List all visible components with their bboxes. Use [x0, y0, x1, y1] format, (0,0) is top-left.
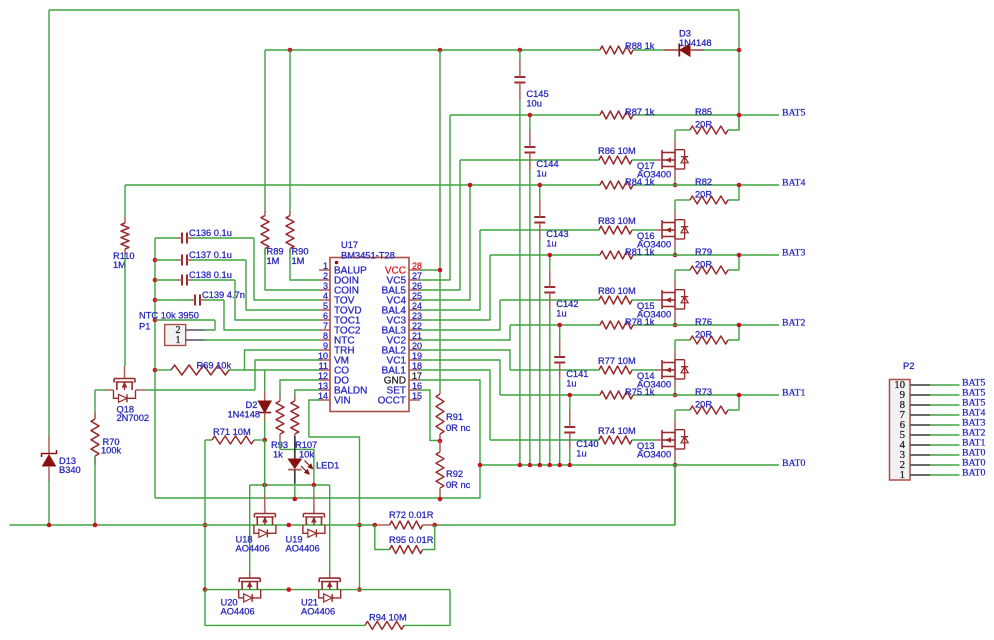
svg-text:20R: 20R	[695, 400, 712, 410]
svg-text:AO4406: AO4406	[236, 544, 270, 554]
svg-text:0R nc: 0R nc	[446, 480, 471, 490]
transistor Q15 AO3400	[655, 280, 688, 319]
junction at 675,395	[673, 393, 678, 398]
wire Q18 source to R70	[94, 390, 96, 419]
svg-text:13: 13	[318, 381, 328, 391]
svg-text:2N7002: 2N7002	[117, 413, 150, 423]
junction at 440,50	[438, 48, 443, 53]
resistor R91 0R nc	[436, 391, 471, 442]
wire riser VCC pin28	[420, 269, 440, 271]
junction at 559.7,465	[557, 463, 562, 468]
svg-text:28: 28	[412, 261, 422, 271]
resistor R87 1k	[600, 107, 655, 119]
wire y485 tie bar	[250, 484, 330, 486]
svg-text:R92: R92	[446, 469, 463, 479]
resistor R79 20R	[690, 247, 728, 274]
wire pin9 TRH staircase	[245, 350, 320, 370]
wire gate row Q13	[490, 439, 599, 441]
resistor R71 10M	[205, 427, 265, 444]
junction at 374.8,525	[373, 523, 378, 528]
svg-text:5: 5	[323, 301, 328, 311]
junction at 675,255	[673, 253, 678, 258]
P2 pin 3	[900, 448, 986, 461]
svg-text:C145: C145	[526, 89, 548, 99]
wire riser SET pin16	[420, 390, 440, 441]
svg-text:R81 1k: R81 1k	[625, 247, 655, 257]
junction at 205,589.6	[203, 587, 208, 592]
svg-text:11: 11	[319, 361, 328, 371]
wire R71 left column to rails	[204, 440, 206, 590]
svg-text:20: 20	[412, 341, 422, 351]
wire R94 loop	[205, 590, 365, 626]
wire U21 column	[329, 485, 331, 571]
svg-text:R77 10M: R77 10M	[598, 356, 636, 366]
junction at 675,465	[673, 463, 678, 468]
svg-text:R73: R73	[695, 387, 712, 397]
wire source to next rail Q14	[674, 389, 676, 395]
svg-text:20R: 20R	[695, 330, 712, 340]
svg-text:4: 4	[323, 291, 328, 301]
capacitor C141 1u	[554, 340, 588, 389]
svg-text:1u: 1u	[536, 169, 546, 179]
capacitor C137 0.1u	[178, 250, 232, 266]
svg-text:R69 10k: R69 10k	[197, 361, 232, 371]
svg-text:BAT2: BAT2	[782, 318, 806, 329]
svg-text:21: 21	[412, 331, 422, 341]
resistor R75 1k	[600, 387, 655, 399]
capacitor C142 1u	[544, 270, 578, 319]
wire R93 column to U19	[313, 485, 315, 494]
svg-text:C142: C142	[556, 299, 578, 309]
svg-text:25: 25	[412, 291, 422, 301]
svg-text:OCCT: OCCT	[378, 396, 406, 407]
svg-text:10u: 10u	[526, 99, 542, 109]
wire BAT3 rail	[490, 254, 600, 256]
svg-text:C143: C143	[546, 229, 568, 239]
pin 21 VC2	[387, 331, 422, 347]
wire drain link Q13	[674, 410, 676, 420]
pin 17 GND	[384, 371, 422, 387]
svg-text:AO4406: AO4406	[301, 607, 335, 617]
wire 20R branch BAT5	[675, 129, 690, 131]
wire drain link Q15	[674, 270, 676, 280]
pin 18 BAL1	[382, 361, 422, 377]
P2 pin 8	[900, 398, 986, 411]
svg-text:1M: 1M	[292, 256, 305, 266]
junction at 290,50	[288, 48, 293, 53]
junction at 155,300	[153, 298, 158, 303]
svg-text:12: 12	[318, 371, 328, 381]
pin 27 VC5	[387, 271, 422, 287]
svg-text:R79: R79	[695, 247, 712, 257]
resistor R72 0.01R	[375, 510, 435, 529]
junction at 288.8,525	[287, 523, 292, 528]
wire BAT4 rail	[125, 184, 600, 186]
svg-text:R83 10M: R83 10M	[598, 216, 636, 226]
resistor R78 1k	[600, 317, 655, 329]
pin 25 VC4	[387, 291, 422, 307]
pin 11 CO	[319, 361, 350, 377]
wire drain link Q16	[674, 200, 676, 210]
svg-text:14: 14	[318, 391, 328, 401]
svg-text:R88 1k: R88 1k	[625, 41, 655, 51]
junction at 294.8,499	[293, 497, 298, 502]
pin 9 TRH	[319, 341, 355, 357]
junction at 264.7,485	[262, 483, 267, 488]
wire riser VC3 pin23	[420, 255, 490, 320]
junction at 739,395	[737, 393, 742, 398]
svg-text:1: 1	[900, 469, 905, 481]
svg-text:17: 17	[412, 371, 422, 381]
wire pin12 DO to R93	[280, 380, 319, 395]
svg-text:19: 19	[412, 351, 422, 361]
pin 15 OCCT	[378, 391, 422, 407]
resistor R86 10M	[598, 146, 636, 164]
resistor R85 20R	[690, 107, 728, 134]
wire pin13 BALDN to R107	[295, 390, 319, 395]
svg-text:R91: R91	[446, 412, 463, 422]
svg-text:P2: P2	[903, 361, 914, 371]
pin 1 BALUP	[319, 261, 367, 277]
svg-text:C141: C141	[566, 369, 588, 379]
P2 pin 5	[900, 428, 986, 441]
junction at 569.8,395	[568, 393, 573, 398]
svg-text:D2: D2	[246, 400, 258, 410]
svg-text:R87 1k: R87 1k	[625, 107, 655, 117]
wire source to next rail Q16	[674, 249, 676, 255]
wire LED cathode lead	[294, 470, 296, 484]
resistor R76 20R	[690, 317, 728, 344]
svg-text:1u: 1u	[566, 379, 576, 389]
junction at 519.9,465	[518, 463, 523, 468]
resistor R74 10M	[598, 426, 636, 444]
wire gate row Q17	[460, 159, 599, 161]
wire 20R branch BAT2	[675, 339, 690, 341]
svg-text:C137 0.1u: C137 0.1u	[189, 250, 232, 260]
svg-text:AO3400: AO3400	[637, 450, 671, 460]
wire Q18 source row / VM row	[95, 389, 105, 391]
svg-text:R80 10M: R80 10M	[598, 286, 636, 296]
wire Q13 source column	[674, 465, 676, 525]
resistor R77 10M	[598, 356, 636, 374]
junction at 549.8,465	[548, 463, 553, 468]
svg-text:1u: 1u	[546, 239, 556, 249]
pin 7 TOC2	[319, 321, 361, 337]
pin 5 TOVD	[319, 301, 362, 317]
pin 16 SET	[387, 381, 422, 397]
wire NTC row to P1 pin2	[155, 319, 215, 321]
pin 2 DOIN	[319, 271, 359, 287]
svg-text:10: 10	[318, 351, 328, 361]
svg-text:24: 24	[412, 301, 422, 311]
wire R69 row pin11 CO	[155, 369, 171, 371]
svg-text:AO4406: AO4406	[286, 544, 320, 554]
svg-text:U17: U17	[341, 240, 358, 250]
wire gate row Q15	[500, 299, 599, 301]
wire top horizontal B+ loop	[49, 9, 739, 11]
pin 14 VIN	[318, 391, 351, 407]
junction at 675,185	[673, 183, 678, 188]
svg-text:1M: 1M	[267, 256, 280, 266]
svg-text:R89: R89	[267, 247, 284, 257]
junction at 559.7,325	[557, 323, 562, 328]
transistor Q13 AO3400	[655, 420, 688, 459]
svg-text:BM3451-T28: BM3451-T28	[341, 251, 395, 261]
junction at 739,50	[737, 48, 742, 53]
resistor R110 1M	[113, 185, 135, 270]
wire column C145	[519, 50, 521, 61]
svg-text:VIN: VIN	[334, 396, 351, 407]
wire BAT5 rail	[450, 114, 600, 116]
svg-text:C139 4.7n: C139 4.7n	[202, 290, 245, 300]
resistor R93 1k	[271, 401, 288, 460]
wire column C143	[539, 185, 541, 201]
resistor R80 10M	[598, 286, 636, 304]
svg-text:22: 22	[412, 321, 422, 331]
wire C136 to pin4 TOV	[254, 238, 319, 300]
wire riser BAL2 pin20	[420, 350, 510, 370]
diode D3 1N4148	[664, 29, 712, 57]
svg-text:R74 10M: R74 10M	[598, 426, 636, 436]
junction at 288.8,589.6	[287, 587, 292, 592]
pin 3 COIN	[319, 281, 359, 297]
pin 10 VM	[318, 351, 349, 367]
transistor Q18 2N7002	[114, 371, 136, 402]
svg-text:18: 18	[412, 361, 422, 371]
svg-text:D3: D3	[679, 29, 691, 39]
wire bus vertical x155	[154, 238, 156, 498]
resistor R90 1M	[286, 50, 309, 266]
junction at 313.9,485	[312, 483, 317, 488]
wire 20R branch BAT1	[675, 409, 690, 411]
P2 pin 1	[900, 468, 986, 481]
pin 26 BAL5	[382, 281, 422, 297]
transistor Q17 AO3400	[655, 140, 688, 179]
junction at 569.8,465	[568, 463, 573, 468]
wire gate row Q14	[510, 369, 599, 371]
svg-text:1u: 1u	[576, 449, 586, 459]
wire R93 jog to U19 column	[279, 434, 281, 441]
resistor R95 0.01R parallel loop	[375, 525, 435, 554]
svg-text:BAT0: BAT0	[782, 458, 806, 469]
junction at 440,499	[438, 497, 443, 502]
diode D13 B340	[42, 437, 81, 481]
wire gate row Q16	[480, 229, 599, 231]
pin 13 BALDN	[318, 381, 367, 397]
pin 8 NTC	[319, 331, 355, 347]
P2 pin 2	[900, 458, 986, 471]
svg-text:AO4406: AO4406	[221, 607, 255, 617]
transistor U18 AO4406	[254, 506, 276, 537]
svg-text:100k: 100k	[101, 446, 122, 456]
wire pin10 VM staircase	[255, 360, 319, 390]
wire C138 row	[155, 279, 178, 281]
svg-text:R78 1k: R78 1k	[625, 317, 655, 327]
LED LED1	[288, 436, 339, 474]
wire BAT0 rail	[480, 464, 779, 466]
wire R110 to Q18 drain	[124, 255, 126, 366]
resistor R88 1k	[600, 41, 655, 54]
svg-text:R90: R90	[292, 247, 309, 257]
svg-text:20R: 20R	[695, 260, 712, 270]
capacitor C143 1u	[534, 200, 568, 249]
wire D2 column to U18	[264, 440, 266, 494]
capacitor C140 1u	[564, 410, 598, 459]
svg-text:27: 27	[412, 271, 422, 281]
pin 4 TOV	[319, 291, 355, 307]
wire R70 to bottom rail	[94, 456, 96, 525]
svg-text:NTC 10k 3950: NTC 10k 3950	[139, 311, 199, 321]
svg-text:0R nc: 0R nc	[446, 423, 471, 433]
resistor R92 0R nc	[436, 441, 471, 499]
junction at 95,525	[93, 523, 98, 528]
wire C137 row	[155, 259, 178, 261]
junction at 359.5,525	[357, 523, 362, 528]
capacitor C136 0.1u	[178, 228, 232, 244]
svg-text:1: 1	[176, 335, 181, 346]
junction at 434.7,525	[432, 523, 437, 528]
junction at 539.8,465	[538, 463, 543, 468]
wire 20R branch BAT3	[675, 269, 690, 271]
junction at 739,115	[737, 113, 742, 118]
transistor U21 AO4406	[319, 571, 341, 602]
svg-text:1N4148: 1N4148	[228, 410, 261, 420]
wire C138 to pin6 TOC1	[235, 280, 319, 320]
svg-text:C138 0.1u: C138 0.1u	[189, 270, 232, 280]
wire D2 to junction	[264, 421, 266, 440]
junction at 264.7,440	[262, 438, 267, 443]
junction at 440,270	[438, 268, 443, 273]
wire riser VC5 pin27	[420, 115, 450, 280]
transistor Q14 AO3400	[655, 350, 688, 389]
svg-text:1k: 1k	[273, 450, 283, 460]
svg-text:6: 6	[323, 311, 328, 321]
transistor U20 AO4406	[239, 571, 261, 602]
capacitor C144 1u	[524, 130, 558, 179]
svg-text:7: 7	[323, 321, 328, 331]
wire right vertical x739	[738, 10, 740, 130]
P2 pin 9	[900, 388, 986, 401]
svg-text:16: 16	[412, 381, 422, 391]
pin 28 VCC	[385, 261, 422, 277]
junction at 440,441	[438, 439, 443, 444]
svg-text:2: 2	[323, 271, 328, 281]
svg-text:3: 3	[323, 281, 328, 291]
svg-text:R82: R82	[695, 177, 712, 187]
svg-text:R84 1k: R84 1k	[625, 177, 655, 187]
resistor R81 1k	[600, 247, 655, 259]
wire source to next rail Q15	[674, 319, 676, 325]
svg-text:R76: R76	[695, 317, 712, 327]
wire source to next rail Q17	[674, 179, 676, 185]
svg-text:26: 26	[412, 281, 422, 291]
wire C137 to pin5 TOVD	[246, 260, 319, 310]
wire riser BAL4 pin24	[420, 230, 480, 310]
resistor R73 20R	[690, 387, 728, 414]
junction at 359.5,589.6	[357, 587, 362, 592]
svg-text:20R: 20R	[695, 120, 712, 130]
pin 20 BAL2	[382, 341, 422, 357]
resistor R70 100k	[91, 412, 122, 465]
svg-text:LED1: LED1	[316, 461, 339, 471]
junction at 549.8,255	[548, 253, 553, 258]
svg-text:C140: C140	[576, 439, 598, 449]
pin 19 VC1	[387, 351, 422, 367]
capacitor C145 10u	[514, 60, 548, 109]
resistor R82 20R	[690, 177, 728, 204]
svg-text:R75 1k: R75 1k	[625, 387, 655, 397]
svg-text:R107: R107	[295, 440, 317, 450]
junction at 529.9,115	[528, 113, 533, 118]
resistor R89 1M	[261, 50, 284, 266]
junction at 675,325	[673, 323, 678, 328]
transistor Q16 AO3400	[655, 210, 688, 249]
resistor R94 10M	[365, 613, 407, 630]
wire P1 pin1 to pin8 NTC	[205, 339, 320, 341]
wire riser VC4 pin25	[420, 185, 470, 300]
svg-text:C144: C144	[536, 159, 558, 169]
wire left border vertical to D13	[48, 10, 50, 438]
pin 22 BAL3	[382, 321, 422, 337]
wire riser BAL3 pin22	[420, 300, 500, 330]
wire column C141	[559, 325, 561, 341]
junction at 155,370	[153, 368, 158, 373]
junction at 519.9,50	[518, 48, 523, 53]
junction at 205,525	[203, 523, 208, 528]
svg-text:15: 15	[412, 391, 422, 401]
wire C136 row	[155, 237, 178, 239]
svg-text:1: 1	[323, 261, 328, 271]
wire source rail y590	[205, 589, 450, 591]
pin 6 TOC1	[319, 311, 361, 327]
wire drain link Q14	[674, 340, 676, 350]
svg-text:BAT5: BAT5	[782, 108, 806, 119]
resistor R69 10k	[171, 361, 231, 376]
wire y50 horizontal VCC feed	[265, 49, 600, 51]
wire R90 to pin2 DOIN	[290, 249, 319, 280]
svg-text:BAT0: BAT0	[962, 468, 986, 479]
svg-text:B340: B340	[59, 465, 81, 475]
junction at 480,465	[478, 463, 483, 468]
svg-text:20R: 20R	[695, 190, 712, 200]
wire C139 to pin7 TOC2	[224, 300, 319, 330]
junction at 539.8,185	[538, 183, 543, 188]
pin 23 VC3	[387, 311, 422, 327]
wire riser GND pin17	[155, 380, 480, 498]
svg-text:R95 0.01R: R95 0.01R	[389, 535, 434, 545]
wire riser BAL5 pin26	[420, 160, 460, 290]
svg-text:BAT1: BAT1	[782, 388, 806, 399]
pin 24 BAL4	[382, 301, 422, 317]
capacitor C138 0.1u	[178, 270, 232, 286]
wire source to next rail Q13	[674, 459, 676, 465]
junction at 739,255	[737, 253, 742, 258]
svg-text:1u: 1u	[556, 309, 566, 319]
wire riser BAL1 pin18	[420, 370, 490, 440]
svg-text:R85: R85	[695, 107, 712, 117]
P2 pin 6	[900, 418, 986, 431]
svg-text:BAT4: BAT4	[782, 178, 806, 189]
wire pin11 branch to D2	[264, 370, 266, 391]
svg-text:23: 23	[412, 311, 422, 321]
svg-text:R72 0.01R: R72 0.01R	[389, 510, 434, 520]
wire riser VC1 pin19	[420, 360, 500, 395]
junction at 155,320	[153, 318, 158, 323]
resistor R83 10M	[598, 216, 636, 234]
wire drain link Q17	[674, 130, 676, 140]
svg-text:BAT3: BAT3	[782, 248, 806, 259]
wire U20 column	[249, 485, 251, 571]
